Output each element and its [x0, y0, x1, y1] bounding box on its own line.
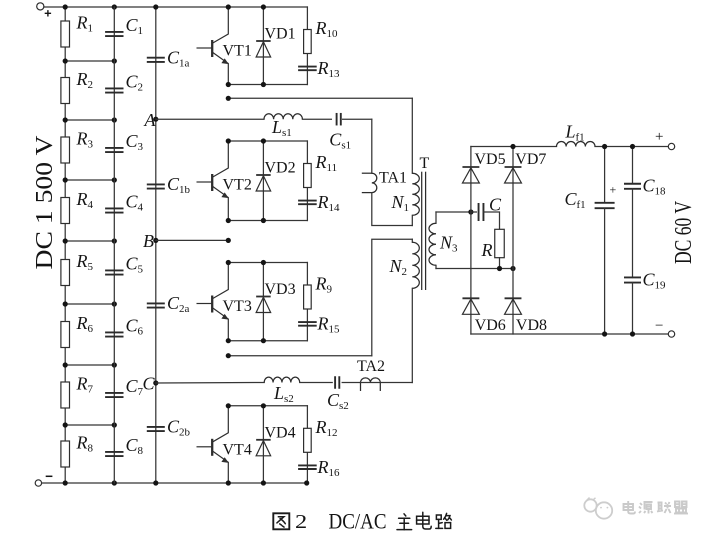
- wire: N3 top lead stub: [435, 212, 437, 223]
- inductor Ls1: [264, 114, 302, 119]
- node: C8 bottom on rail: [112, 480, 117, 485]
- node: VD2 top junction: [261, 138, 266, 143]
- transistor VT4: [197, 406, 229, 483]
- node: flying cap column top: [153, 4, 158, 9]
- capacitor C2a: [147, 303, 165, 307]
- node: C19 bottom junction: [630, 331, 635, 336]
- wire: rectifier left column: [470, 147, 472, 335]
- wire: N1 bottom lead: [411, 215, 413, 225]
- svg-text:VT2: VT2: [223, 177, 252, 194]
- resistor R (damper): [495, 229, 505, 257]
- wire: VT3 collector rail: [228, 262, 307, 264]
- watermark text 电源联盟: [624, 501, 689, 514]
- node: VT3-VT4 midpoint tap: [226, 353, 231, 358]
- wire: N3 bottom lead stub: [435, 265, 437, 268]
- wire: R to bottom node: [499, 258, 501, 269]
- svg-text:VD1: VD1: [265, 26, 296, 43]
- svg-text:VD5: VD5: [475, 151, 506, 168]
- capacitor C5: [105, 270, 123, 274]
- caption glyph 电: [417, 512, 432, 529]
- node: R ladder junction 1: [63, 58, 68, 63]
- wire: N2 bottom lead: [411, 288, 413, 382]
- capacitor (snubber) R15: [298, 322, 317, 326]
- wire: node B to VT column: [156, 239, 229, 241]
- node: VD3 top junction: [261, 260, 266, 265]
- node: C ladder junction 4: [112, 238, 117, 243]
- capacitor (snubber) R16: [298, 465, 317, 469]
- node: N3 bottom / VD7-VD8 midpoint: [510, 266, 515, 271]
- current transformer TA1 primary: [362, 173, 377, 192]
- node: VD7 top on rail: [510, 144, 515, 149]
- capacitor C1a: [147, 58, 165, 62]
- node: VT1 emitter junction: [226, 82, 231, 87]
- wire: ladder node link 7: [65, 424, 114, 426]
- inductor Ls2: [264, 377, 300, 382]
- node A junction: [153, 117, 158, 122]
- svg-text:VT1: VT1: [223, 43, 252, 60]
- node: VT1 collector junction: [226, 4, 231, 9]
- resistor R8: [61, 441, 70, 467]
- transistor VT3: [197, 263, 229, 341]
- wire: ladder node link 3: [65, 179, 114, 181]
- transformer primary winding N1: [412, 173, 419, 215]
- transformer T core: [422, 172, 426, 290]
- capacitor C3: [105, 148, 123, 152]
- resistor R11: [304, 285, 312, 309]
- wire: N3 bottom to rectifier right leg: [436, 268, 513, 270]
- wire: snubber branch VT4: [306, 406, 308, 483]
- node: VT3 emitter junction: [226, 338, 231, 343]
- node: VT3 collector junction: [226, 260, 231, 265]
- svg-text:B: B: [143, 231, 154, 251]
- node: DC output + terminal: [668, 143, 674, 149]
- transistor VT2: [197, 141, 229, 221]
- wire: flying capacitor column: [155, 7, 157, 483]
- node: C ladder junction 1: [112, 58, 117, 63]
- wire: node C to Ls2: [156, 382, 264, 385]
- node B junction: [153, 238, 158, 243]
- wire: VT2 emitter rail: [228, 220, 307, 222]
- capacitor C1: [105, 32, 123, 36]
- wire: top DC rail: [44, 6, 308, 8]
- capacitor C2b: [147, 427, 165, 431]
- node: flying cap column bottom: [153, 480, 158, 485]
- diode VD5: [462, 167, 479, 183]
- node: R ladder junction 2: [63, 117, 68, 122]
- svg-text:VT3: VT3: [223, 298, 252, 315]
- svg-text:+: +: [655, 129, 663, 145]
- capacitor C (damper): [479, 203, 484, 221]
- node: C1 top on rail: [112, 4, 117, 9]
- resistor R4: [61, 198, 70, 224]
- node: VD2 bottom junction: [261, 218, 266, 223]
- capacitor C18: [624, 184, 641, 189]
- svg-text:A: A: [144, 110, 157, 130]
- resistor R5: [61, 260, 70, 286]
- diode VD7: [505, 167, 522, 183]
- wire: C19 bottom lead: [632, 283, 634, 334]
- wire: N2 top lead: [411, 239, 413, 242]
- node: R8 bottom on rail: [63, 480, 68, 485]
- wire: ladder node link 1: [65, 60, 114, 62]
- wire: resistor ladder column: [64, 7, 66, 483]
- wire: VD1 branch: [262, 7, 264, 85]
- wire: snubber branch VT2: [306, 141, 308, 221]
- node: R1 top on rail: [63, 4, 68, 9]
- current transformer TA2 primary: [361, 378, 381, 391]
- transformer secondary winding N3: [429, 223, 436, 265]
- wire: Cf1 top lead: [604, 147, 606, 203]
- wire: snubber branch VT3: [306, 263, 308, 341]
- wire: bottom DC rail: [42, 482, 308, 484]
- inductor Lf1: [557, 142, 596, 147]
- wire: ladder node link 4: [65, 240, 114, 242]
- svg-text:DC 1 500 V: DC 1 500 V: [32, 135, 58, 270]
- node: VD4 top junction: [261, 403, 266, 408]
- wire: Lf1 to + output: [595, 146, 668, 148]
- capacitor (snubber) R13: [298, 67, 317, 71]
- wire: tap up to N2 top: [372, 239, 413, 356]
- svg-text:VD7: VD7: [515, 151, 546, 168]
- capacitor Cf1 (electrolytic): [595, 203, 615, 208]
- wire: VT1-VT2 midpoint to N1 top: [228, 97, 412, 99]
- wire: Cs2 to TA2: [342, 382, 360, 384]
- node C junction: [153, 380, 158, 385]
- wire: VT3 emitter rail: [228, 340, 307, 342]
- diode VD2: [256, 175, 271, 191]
- node: R ladder junction 6: [63, 362, 68, 367]
- svg-text:DC 60 V: DC 60 V: [671, 201, 697, 264]
- capacitor C4: [105, 208, 123, 212]
- wire: rectifier right column: [512, 147, 514, 335]
- node: R ladder junction 5: [63, 301, 68, 306]
- node: DC input − terminal: [35, 480, 41, 486]
- node: VD1 bottom junction: [261, 82, 266, 87]
- node: N3 top / VD5-VD6 midpoint: [468, 209, 473, 214]
- wire: snubber branch VT1: [306, 7, 308, 85]
- svg-text:C: C: [143, 374, 156, 394]
- diode VD6: [462, 298, 479, 314]
- node: C ladder junction 2: [112, 117, 117, 122]
- diode VD3: [256, 297, 271, 313]
- wire: C to R: [483, 212, 499, 229]
- wire: VD4 branch: [262, 406, 264, 483]
- resistor R10: [304, 164, 312, 188]
- diode VD1: [256, 41, 271, 57]
- wire: VD3 branch: [262, 263, 264, 341]
- wire: down to TA1 primary: [371, 119, 373, 173]
- node: VT2 emitter junction: [226, 218, 231, 223]
- node: R16 snubber to bottom rail: [304, 480, 309, 485]
- wire: VT1 emitter rail: [228, 84, 307, 86]
- wire: TA2 through wire: [361, 382, 381, 384]
- caption glyph 主: [397, 514, 412, 530]
- svg-text:DC/AC: DC/AC: [329, 509, 387, 534]
- wire: Ls2 to Cs2: [300, 382, 333, 384]
- wire: ladder node link 5: [65, 303, 114, 305]
- wire: C18 top lead: [632, 147, 634, 184]
- diode VD4: [256, 440, 271, 456]
- svg-text:−: −: [655, 318, 663, 334]
- svg-text:VD4: VD4: [265, 424, 296, 441]
- node: C ladder junction 6: [112, 362, 117, 367]
- wire: ladder node link 2: [65, 119, 114, 121]
- label + (input): [45, 10, 51, 16]
- node: C18 top junction: [630, 144, 635, 149]
- wire: capacitor ladder column: [113, 7, 115, 483]
- wire: damper C left lead: [471, 211, 477, 213]
- wire: VT3-VT4 midpoint tap link: [228, 355, 371, 357]
- node: R ladder junction 3: [63, 177, 68, 182]
- transistor VT1: [197, 7, 229, 85]
- node: R bottom junction: [497, 266, 502, 271]
- wire: TA2 to N2 bottom: [380, 382, 412, 384]
- resistor R9: [304, 30, 312, 54]
- node: VT1-VT2 midpoint tap: [226, 96, 231, 101]
- node: C ladder junction 3: [112, 177, 117, 182]
- resistor R6: [61, 322, 70, 348]
- wire: VD2 branch: [262, 141, 264, 221]
- caption glyph 路: [436, 513, 452, 528]
- svg-text:R: R: [481, 240, 493, 260]
- svg-text:T: T: [420, 155, 430, 172]
- capacitor C7: [105, 393, 123, 397]
- svg-text:VD3: VD3: [265, 281, 296, 298]
- wire: VT4 collector rail: [228, 405, 307, 407]
- wire: ladder node link 6: [65, 364, 114, 366]
- wire: Cs1 to TA1 branch: [343, 118, 372, 120]
- node: DC input + terminal: [37, 3, 44, 10]
- svg-text:+: +: [610, 183, 617, 197]
- capacitor Cs1: [337, 113, 341, 126]
- svg-text:TA1: TA1: [379, 170, 407, 187]
- resistor R7: [61, 382, 70, 408]
- node: VT4 emitter junction: [226, 480, 231, 485]
- node: R ladder junction 7: [63, 422, 68, 427]
- capacitor C8: [105, 452, 123, 456]
- node: VD4 bottom junction: [261, 480, 266, 485]
- node: Cf1 top junction: [602, 144, 607, 149]
- node: Cf1 bottom junction: [602, 331, 607, 336]
- capacitor Cs2: [335, 376, 339, 389]
- resistor R1: [61, 21, 70, 47]
- resistor R12: [304, 428, 312, 452]
- transformer primary winding N2: [412, 242, 419, 288]
- wire: Cf1 bottom lead: [604, 208, 606, 334]
- svg-text:TA2: TA2: [357, 358, 385, 375]
- caption: figure number 图 2: [273, 513, 289, 529]
- node: VD1 top junction: [261, 4, 266, 9]
- wire: Ls1 to Cs1: [302, 118, 331, 120]
- diode VD8: [505, 298, 522, 314]
- wire: TA1 to N1 bottom: [372, 193, 413, 226]
- capacitor C19: [624, 277, 641, 282]
- wire: N3 top to rectifier left leg: [436, 211, 471, 213]
- capacitor (snubber) R14: [298, 201, 317, 205]
- wire: rectifier top rail to Lf1: [471, 146, 557, 148]
- svg-text:VT4: VT4: [223, 441, 252, 458]
- resistor R3: [61, 137, 70, 163]
- svg-text:VD2: VD2: [265, 160, 296, 177]
- capacitor C6: [105, 332, 123, 336]
- wire: N1 top lead: [411, 98, 413, 173]
- watermark logo icon (two circles): [584, 498, 612, 519]
- node: C ladder junction 5: [112, 301, 117, 306]
- wire: VT2 collector rail: [228, 140, 307, 142]
- node: DC output − terminal: [668, 331, 674, 337]
- node: VD3 bottom junction: [261, 338, 266, 343]
- label − (input): [46, 475, 53, 477]
- resistor R2: [61, 78, 70, 104]
- node: B at VT column: [226, 238, 231, 243]
- node: C ladder junction 7: [112, 422, 117, 427]
- wire: node A to Ls1: [156, 118, 264, 120]
- wire: rectifier bottom rail to − output: [471, 333, 668, 335]
- svg-text:VD8: VD8: [516, 317, 547, 334]
- svg-text:VD6: VD6: [475, 317, 506, 334]
- wire: C18-C19 middle link: [632, 189, 634, 278]
- capacitor C1b: [147, 184, 165, 188]
- node: VT4 collector junction: [226, 403, 231, 408]
- node: R ladder junction 4: [63, 238, 68, 243]
- node: VT2 collector junction: [226, 138, 231, 143]
- capacitor C2: [105, 88, 123, 92]
- svg-text:2: 2: [295, 511, 307, 533]
